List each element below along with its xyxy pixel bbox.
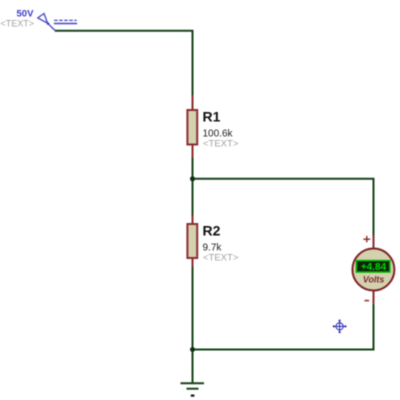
svg-text:+4.84: +4.84 <box>361 262 387 273</box>
svg-text:<TEXT>: <TEXT> <box>203 252 239 263</box>
svg-text:Volts: Volts <box>363 275 384 285</box>
svg-text:<TEXT>: <TEXT> <box>1 19 35 29</box>
svg-text:<TEXT>: <TEXT> <box>203 139 239 150</box>
svg-text:R2: R2 <box>203 222 221 238</box>
svg-text:R1: R1 <box>203 109 221 125</box>
